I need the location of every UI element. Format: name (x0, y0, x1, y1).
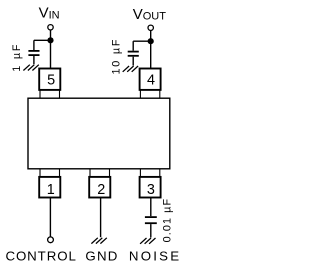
svg-text:0.01 µF: 0.01 µF (162, 198, 174, 243)
pin 1 (39, 169, 60, 198)
pin 5 (39, 69, 60, 99)
pin 2 (89, 169, 110, 198)
svg-text:GND: GND (85, 249, 118, 264)
capacitor C3 (145, 217, 157, 237)
svg-text:CONTROL: CONTROL (5, 249, 76, 264)
wire pin 2 to ground (100, 198, 102, 238)
wire VIN vertical (50, 30, 52, 69)
svg-text:4: 4 (147, 73, 155, 89)
svg-text:5: 5 (47, 73, 55, 89)
terminal VIN (48, 25, 53, 30)
pin 4 (140, 69, 161, 99)
wire VOUT vertical (150, 31, 152, 69)
node VOUT junction (148, 38, 154, 44)
wire junction to C2 (133, 40, 151, 42)
svg-text:3: 3 (147, 182, 155, 198)
ground C2 (123, 66, 138, 72)
svg-text:1: 1 (47, 182, 55, 198)
wire pin 3 to C3 (150, 198, 152, 217)
terminal VOUT (148, 25, 153, 30)
svg-text:1 µF: 1 µF (11, 43, 23, 72)
pin 3 (140, 169, 161, 198)
svg-text:NOISE: NOISE (129, 249, 181, 264)
capacitor C2 (128, 41, 139, 65)
IC body (28, 98, 170, 169)
node VIN junction (47, 37, 53, 43)
ground C3 (140, 238, 155, 244)
svg-text:2: 2 (97, 182, 105, 198)
terminal CONTROL (48, 237, 54, 243)
svg-text:10 µF: 10 µF (111, 38, 123, 75)
ground GND (91, 238, 106, 244)
ground C1 (23, 65, 38, 71)
wire junction to C1 (34, 39, 51, 41)
capacitor C1 (28, 40, 39, 64)
wire pin 1 to CONTROL (49, 198, 51, 237)
